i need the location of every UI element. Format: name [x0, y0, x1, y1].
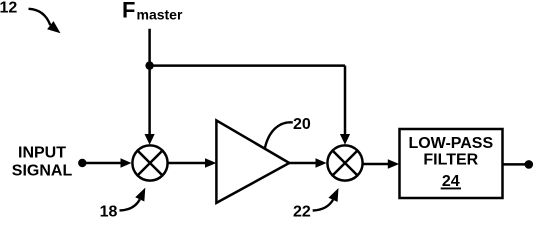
svg-text:FILTER: FILTER — [423, 152, 478, 169]
leader arrow from 12 — [29, 9, 61, 33]
node label Fmaster — [122, 0, 183, 23]
arrowhead into filter — [388, 159, 399, 169]
underline of 24 — [441, 188, 461, 190]
leader arrow from 22 — [313, 188, 339, 211]
mixer X1 (18) — [132, 145, 167, 180]
arrowhead into mixer 22 left — [316, 158, 327, 167]
wire Fmaster vertical — [148, 29, 151, 134]
svg-text:F: F — [122, 0, 135, 23]
mixer X2 (22) — [327, 145, 362, 180]
svg-text:12: 12 — [0, 0, 17, 17]
arrowhead into mixer 18 — [145, 134, 155, 145]
wire filter to output — [503, 163, 529, 166]
arrowhead into amplifier — [205, 158, 216, 168]
wire vertical into mixer 22 — [344, 66, 347, 134]
svg-text:LOW-PASS: LOW-PASS — [408, 135, 493, 152]
INPUT SIGNAL label — [12, 145, 73, 180]
svg-text:20: 20 — [293, 116, 311, 133]
junction dot — [145, 61, 153, 69]
arrowhead into mixer 18 left — [121, 158, 132, 167]
arrowhead into mixer 22 — [340, 134, 350, 145]
wire mixer 22 to filter — [363, 163, 390, 166]
svg-text:SIGNAL: SIGNAL — [12, 163, 73, 180]
svg-text:18: 18 — [100, 204, 118, 218]
wire top horizontal — [150, 64, 345, 67]
leader arrow from 18 — [120, 188, 146, 211]
wire mixer 18 to amplifier — [168, 162, 207, 165]
wire amplifier to mixer 22 — [289, 162, 317, 165]
input node dot — [78, 159, 86, 167]
svg-text:master: master — [137, 7, 183, 23]
low-pass filter block 24 — [400, 129, 503, 198]
svg-text:22: 22 — [293, 204, 311, 218]
output node dot — [525, 160, 534, 169]
leader line for 20 — [265, 122, 293, 148]
amplifier 20 — [216, 120, 289, 202]
svg-text:INPUT: INPUT — [18, 145, 66, 162]
svg-text:24: 24 — [442, 173, 460, 190]
wire input to mixer 18 — [82, 162, 122, 165]
